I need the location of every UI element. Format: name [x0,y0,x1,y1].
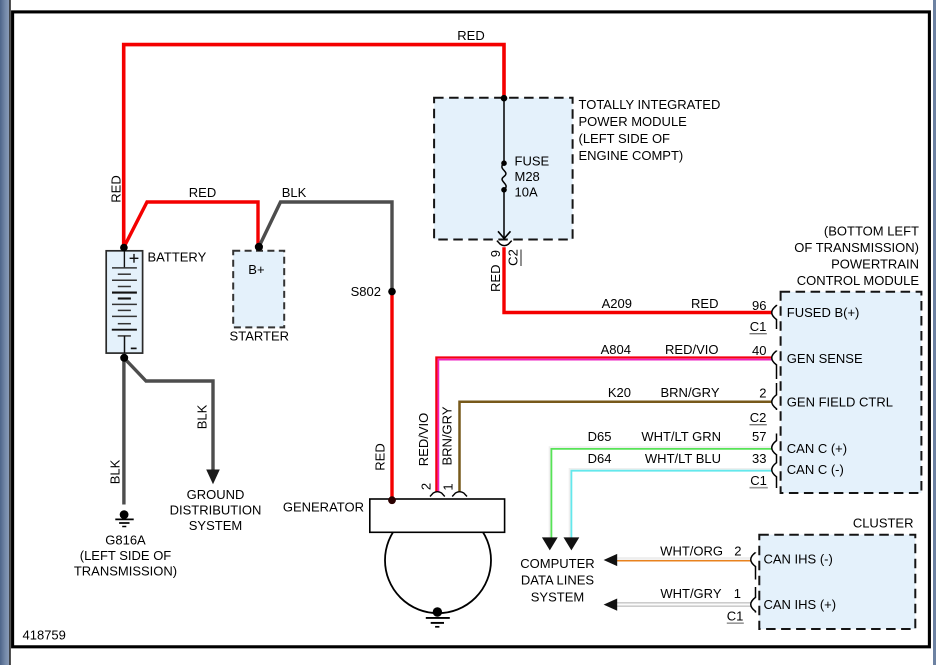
svg-text:WHT/LT GRN: WHT/LT GRN [641,429,721,444]
TIPM box [434,98,572,240]
svg-text:C1: C1 [750,473,767,488]
svg-text:STARTER: STARTER [230,329,289,344]
connector arc generator pin 1 [452,492,467,497]
label GROUND DISTRIBUTION SYSTEM [170,487,262,533]
wire RED battery to TIPM (top run) [124,45,504,248]
connector C2 arc below TIPM [497,241,512,246]
wire WHT/LT BLU PCM pin 33 to data lines [570,469,772,538]
label POWERTRAIN CONTROL MODULE header [794,224,919,289]
svg-text:DISTRIBUTION: DISTRIBUTION [170,503,262,518]
label C1 (underlined) [750,319,767,334]
svg-text:WHT/ORG: WHT/ORG [660,544,723,559]
junction dot TIPM top [501,95,508,102]
svg-text:RED: RED [457,28,484,43]
svg-text:WHT/LT BLU: WHT/LT BLU [645,451,721,466]
starter box [233,251,284,328]
svg-text:COMPUTER: COMPUTER [520,556,594,571]
svg-text:CONTROL MODULE: CONTROL MODULE [797,273,920,288]
svg-text:10A: 10A [515,185,538,200]
svg-text:SYSTEM: SYSTEM [531,590,584,605]
svg-text:TRANSMISSION): TRANSMISSION) [74,564,177,579]
window left chrome bar [0,0,11,665]
svg-text:DATA LINES: DATA LINES [521,573,595,588]
arrow WHT/GRY to computer data lines [604,599,618,611]
arrow WHT/LT BLU to computer data lines [564,537,580,550]
PCM connector bracket pins 57,33 [772,434,777,489]
arrow to ground distribution system [206,470,220,485]
svg-text:418759: 418759 [23,628,66,643]
svg-text:2: 2 [419,483,434,490]
svg-text:(LEFT SIDE OF: (LEFT SIDE OF [579,131,671,146]
svg-text:RED: RED [373,443,388,470]
label FUSE M28 10A [515,154,550,200]
svg-text:BRN/GRY: BRN/GRY [661,385,720,400]
arrowhead at TIPM exit [498,231,511,238]
wire inside TIPM (fuse leads) [503,98,505,161]
junction dot generator B+ [388,496,396,504]
wire RED C2 to PCM pin 96 [504,247,772,312]
svg-text:2: 2 [759,386,766,401]
svg-text:A804: A804 [601,342,631,357]
label C2 (rotated, underlined) [506,249,522,266]
svg-text:GENERATOR: GENERATOR [283,500,364,515]
svg-text:1: 1 [441,483,456,490]
splice S802 [388,288,396,296]
svg-text:A209: A209 [602,296,632,311]
svg-text:C2: C2 [506,249,521,266]
svg-text:FUSE: FUSE [515,154,550,169]
wire BLK battery to ground distribution arrow [124,358,213,471]
junction dot starter [255,243,263,251]
svg-text:CAN IHS (-): CAN IHS (-) [764,552,833,567]
svg-text:GEN SENSE: GEN SENSE [787,351,863,366]
svg-text:1: 1 [734,586,741,601]
svg-text:C2: C2 [750,410,767,425]
svg-text:K20: K20 [608,385,631,400]
label C1 (underlined) [750,473,768,488]
wire WHT/LT GRN PCM pin 57 to data lines [550,447,772,538]
svg-text:RED/VIO: RED/VIO [416,413,431,466]
label G816A (LEFT SIDE OF TRANSMISSION) [74,533,177,579]
battery box [106,251,142,353]
svg-text:OF TRANSMISSION): OF TRANSMISSION) [794,240,919,255]
svg-text:B+: B+ [248,262,264,277]
generator circle [385,507,491,613]
svg-text:ENGINE COMPT): ENGINE COMPT) [579,148,684,163]
svg-text:POWERTRAIN: POWERTRAIN [831,257,919,272]
label COMPUTER DATA LINES SYSTEM [520,556,594,605]
svg-text:40: 40 [752,343,766,358]
label C1 (underlined, cluster) [727,609,744,624]
svg-text:D64: D64 [588,451,612,466]
cluster connector bracket pins 2,1 [751,553,756,613]
junction dot battery positive [120,244,128,252]
PCM box [781,292,922,493]
svg-text:GEN FIELD CTRL: GEN FIELD CTRL [787,395,893,410]
svg-text:D65: D65 [588,429,612,444]
svg-text:CLUSTER: CLUSTER [853,516,914,531]
svg-text:C1: C1 [750,319,767,334]
wire BRN/GRY generator pin 1 to PCM pin 2 [460,402,772,492]
battery internals [112,251,139,353]
generator ground [426,607,450,627]
wire RED/VIO generator pin 2 to PCM pin 40 [436,358,771,493]
svg-text:2: 2 [734,544,741,559]
generator body box [370,499,505,532]
ground G816A [115,510,133,526]
svg-text:BLK: BLK [282,185,307,200]
wire WHT/GRY cluster pin 1 [612,602,752,607]
wire BLK starter to S802 [259,202,392,292]
svg-text:FUSED B(+): FUSED B(+) [787,305,860,320]
svg-text:GROUND: GROUND [187,487,245,502]
svg-text:57: 57 [752,429,766,444]
wire RED battery to starter [124,202,258,248]
svg-text:POWER MODULE: POWER MODULE [579,114,688,129]
svg-text:(LEFT SIDE OF: (LEFT SIDE OF [80,548,172,563]
junction dot battery negative [120,354,128,362]
svg-text:RED: RED [109,175,124,202]
svg-text:CAN IHS (+): CAN IHS (+) [764,597,837,612]
svg-text:33: 33 [752,451,766,466]
PCM connector C1 bracket pin 96 [772,305,777,329]
svg-text:CAN C (+): CAN C (+) [787,441,847,456]
fuse M28 [501,160,507,192]
svg-text:RED: RED [189,185,216,200]
svg-text:SYSTEM: SYSTEM [189,518,242,533]
arrow WHT/LT GRN to computer data lines [542,537,558,550]
wire RED S802 to generator [390,292,393,499]
PCM connector bracket pins 40,2 [772,351,777,411]
svg-text:M28: M28 [515,169,540,184]
wire WHT/ORG cluster pin 2 [612,558,752,561]
label C2 (underlined) [750,410,767,425]
arrow WHT/ORG to computer data lines [604,554,618,566]
svg-text:RED: RED [691,296,718,311]
svg-text:BRN/GRY: BRN/GRY [440,406,455,465]
cluster box [759,535,915,629]
svg-text:C1: C1 [727,609,744,624]
svg-text:BLK: BLK [195,404,210,429]
svg-text:WHT/GRY: WHT/GRY [660,586,721,601]
svg-text:CAN C (-): CAN C (-) [787,462,844,477]
svg-text:96: 96 [752,298,766,313]
svg-text:(BOTTOM LEFT: (BOTTOM LEFT [824,224,919,239]
svg-text:RED 9: RED 9 [488,250,503,292]
svg-text:S802: S802 [351,284,381,299]
svg-text:TOTALLY INTEGRATED: TOTALLY INTEGRATED [579,97,721,112]
svg-text:BATTERY: BATTERY [148,250,207,265]
svg-text:G816A: G816A [105,533,146,548]
wire BLK battery to G816A ground [122,358,125,505]
svg-text:BLK: BLK [108,459,123,484]
svg-text:RED/VIO: RED/VIO [665,342,718,357]
window right chrome bar [933,0,936,665]
label TOTALLY INTEGRATED POWER MODULE [579,97,721,163]
connector arc generator pin 2 [430,492,445,497]
